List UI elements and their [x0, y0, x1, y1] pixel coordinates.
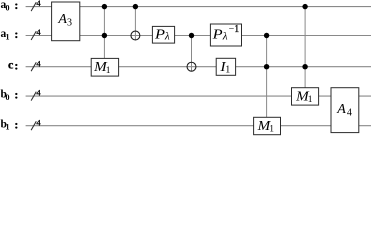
control dot on c at x=305.1	[302, 64, 307, 69]
control dot on a1 at x=266.6	[264, 33, 269, 38]
bus slash /4 on c	[31, 58, 41, 71]
svg-text:4: 4	[347, 108, 352, 119]
control dot on c at x=266.6	[264, 64, 269, 69]
svg-text:1: 1	[6, 32, 10, 41]
svg-text:A: A	[57, 12, 67, 27]
bus slash /4 on a1	[31, 27, 41, 40]
gate box M1 (on b1, controlled by a1,c)	[254, 117, 281, 134]
svg-text:0: 0	[6, 3, 10, 12]
svg-text:A: A	[336, 102, 346, 117]
svg-text:4: 4	[36, 88, 41, 98]
svg-text:P: P	[212, 28, 224, 43]
wire a1	[26, 35, 371, 37]
svg-text::: :	[14, 117, 18, 131]
svg-text:4: 4	[36, 58, 41, 68]
svg-text:4: 4	[36, 0, 41, 8]
svg-text::: :	[14, 58, 18, 72]
bus slash /4 on a0	[31, 0, 41, 11]
wire c	[26, 66, 371, 68]
wire b1	[26, 125, 371, 127]
svg-text:4: 4	[36, 117, 41, 127]
label c	[8, 57, 18, 72]
label b0	[1, 88, 19, 102]
svg-text:1: 1	[308, 95, 313, 105]
wire control line x=305.1 (a0,c controls to M1 on b0)	[304, 7, 306, 88]
bus slash /4 on b0	[31, 88, 41, 101]
gate box M1 (on c, controlled by a0,a1)	[91, 58, 118, 76]
gate box I1 (on c)	[216, 58, 235, 75]
svg-text:3: 3	[67, 18, 72, 29]
label a1	[1, 27, 19, 41]
svg-text::: :	[14, 0, 18, 12]
svg-text::: :	[14, 27, 18, 41]
svg-text:c: c	[8, 57, 14, 71]
wire control line x=104.4 (a0,a1 controls to M1 on c)	[103, 7, 105, 59]
svg-text:1: 1	[6, 123, 10, 132]
svg-text:λ: λ	[164, 30, 170, 42]
CNOT target on c at x=191.5	[187, 62, 196, 71]
gate box P_lambda (on a1)	[152, 26, 174, 43]
svg-text:4: 4	[36, 27, 41, 37]
gate box M1 (on b0, controlled by a0,c)	[292, 88, 319, 106]
svg-text:P: P	[154, 27, 166, 42]
svg-text:1: 1	[234, 24, 239, 35]
svg-text:1: 1	[106, 66, 111, 76]
control dot on a0 at x=135.4	[133, 4, 138, 9]
label a0	[1, 0, 19, 12]
svg-text:λ: λ	[222, 31, 228, 43]
control dot on a1 at x=191.5	[189, 33, 194, 38]
wire a0	[26, 6, 371, 8]
gate box A4 (on b0,b1)	[331, 88, 359, 133]
control dot on a0 at x=305.1	[302, 4, 307, 9]
CNOT target on a1 at x=135.4	[131, 31, 140, 40]
bus slash /4 on b1	[31, 117, 41, 130]
label b1	[1, 117, 19, 131]
control dot on a0 at x=104.4	[102, 4, 107, 9]
svg-text:1: 1	[225, 65, 230, 76]
wire control line x=266.6 (a1,c controls to M1 on b1)	[266, 36, 268, 118]
wire control line x=191.5 (a1 control to CNOT target on c)	[191, 36, 193, 72]
gate box P_lambda^-1 (on a1)	[210, 24, 241, 46]
svg-text:1: 1	[269, 125, 274, 135]
gate box A3 (on a0,a1)	[52, 2, 80, 41]
control dot on a1 at x=104.4	[102, 33, 107, 38]
svg-text:0: 0	[6, 93, 10, 102]
wire control line x=135.4 (a0 control to CNOT target on a1)	[134, 7, 136, 40]
wire b0	[26, 95, 371, 97]
svg-text::: :	[14, 88, 18, 102]
